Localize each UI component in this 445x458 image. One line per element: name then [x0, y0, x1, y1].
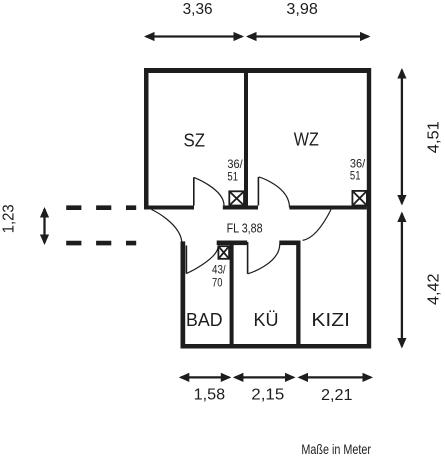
- svg-text:WZ: WZ: [294, 129, 319, 149]
- wall interior BAD/KU: [230, 241, 234, 349]
- wall interior KU/KIZI: [296, 241, 300, 349]
- door BAD leaf: [185, 246, 187, 274]
- wall hallway top segment A: [144, 206, 194, 210]
- dimension arrow bottom 1,58: [179, 373, 232, 382]
- wall top exterior: [144, 68, 371, 73]
- wall bottom exterior: [181, 344, 372, 349]
- wall interior SZ/WZ: [244, 73, 248, 206]
- svg-text:1,23: 1,23: [1, 204, 18, 233]
- svg-text:3,98: 3,98: [286, 1, 318, 18]
- svg-text:FL 3,88: FL 3,88: [227, 221, 263, 236]
- door KIZI arc: [303, 210, 331, 241]
- svg-text:2,15: 2,15: [251, 387, 284, 404]
- dimension arrow bottom 2,15: [233, 373, 296, 382]
- wall hallway bottom segment A: [217, 241, 248, 246]
- svg-text:51: 51: [350, 169, 361, 183]
- dimension arrow right 4,51: [397, 68, 406, 206]
- svg-text:4,51: 4,51: [425, 121, 442, 153]
- door entrance arc: [152, 210, 183, 245]
- dimension arrow left 1,23: [40, 207, 49, 245]
- dimension arrow top 3,98: [246, 32, 371, 41]
- svg-text:KIZI: KIZI: [311, 310, 350, 330]
- svg-text:BAD: BAD: [186, 310, 223, 330]
- svg-text:70: 70: [212, 275, 223, 289]
- door KU arc: [248, 244, 280, 274]
- dashed line lower: [66, 241, 136, 246]
- door SZ arc: [194, 177, 224, 205]
- wall right exterior: [367, 68, 371, 349]
- wall left exterior (SZ): [144, 68, 149, 210]
- wall hallway top segment B: [223, 206, 258, 210]
- svg-text:51: 51: [227, 170, 238, 184]
- dimension arrow right 4,42: [397, 212, 406, 349]
- door KU leaf: [247, 242, 249, 274]
- shaft box WZ 36/51: [352, 191, 367, 206]
- door BAD arc: [187, 247, 219, 274]
- dashed line upper: [66, 205, 136, 210]
- door SZ leaf: [193, 177, 195, 205]
- door WZ leaf: [257, 177, 259, 206]
- shaft box BAD 43/70: [218, 246, 229, 259]
- svg-text:1,58: 1,58: [194, 387, 226, 404]
- svg-text:4,42: 4,42: [425, 274, 442, 306]
- wall hallway bottom segment B: [279, 241, 300, 246]
- wall hallway top segment C: [289, 206, 366, 210]
- svg-text:KÜ: KÜ: [254, 310, 279, 330]
- svg-text:3,36: 3,36: [183, 1, 213, 18]
- dimension arrow bottom 2,21: [298, 373, 374, 382]
- svg-text:Maße in Meter: Maße in Meter: [301, 442, 371, 457]
- door WZ arc: [259, 177, 290, 208]
- wall BAD left exterior: [181, 241, 186, 348]
- dimension arrow top 3,36: [144, 32, 244, 41]
- svg-text:2,21: 2,21: [321, 387, 353, 404]
- shaft box SZ 36/51: [229, 191, 244, 205]
- svg-text:SZ: SZ: [184, 130, 206, 150]
